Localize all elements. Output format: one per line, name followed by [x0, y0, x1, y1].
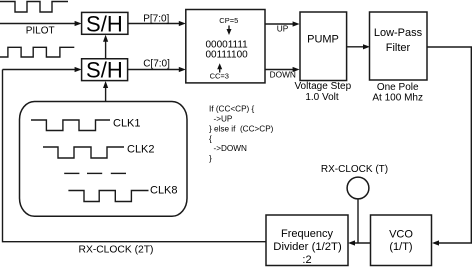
svg-text:} else if (CC>CP): } else if (CC>CP)	[209, 124, 274, 133]
svg-text:VCO: VCO	[389, 229, 413, 241]
svg-text:Low-Pass: Low-Pass	[374, 27, 423, 39]
svg-text:(1/T): (1/T)	[389, 241, 412, 253]
svg-text:DOWN: DOWN	[270, 70, 296, 80]
svg-text:1.0 Volt: 1.0 Volt	[305, 92, 339, 103]
svg-text:PILOT: PILOT	[26, 26, 55, 37]
svg-text:S/H: S/H	[86, 57, 123, 82]
svg-text:Divider (1/2T): Divider (1/2T)	[273, 241, 342, 253]
svg-text:}: }	[209, 154, 212, 163]
svg-text:->DOWN: ->DOWN	[214, 144, 248, 153]
svg-text:Voltage Step: Voltage Step	[294, 81, 351, 92]
svg-text:00111100: 00111100	[205, 50, 248, 61]
svg-text:C[7:0]: C[7:0]	[143, 59, 170, 70]
svg-text:S/H: S/H	[86, 11, 123, 36]
svg-text:{: {	[209, 134, 212, 143]
svg-text:CLK2: CLK2	[127, 144, 155, 156]
svg-text:P[7:0]: P[7:0]	[143, 13, 169, 24]
svg-text:RX-CLOCK (T): RX-CLOCK (T)	[321, 164, 388, 175]
svg-text:CP=5: CP=5	[219, 16, 238, 25]
svg-text:Filter: Filter	[386, 42, 411, 54]
svg-text:CC=3: CC=3	[210, 72, 229, 81]
svg-text:CLK8: CLK8	[150, 185, 178, 197]
svg-text:If (CC<CP) {: If (CC<CP) {	[209, 105, 255, 114]
svg-text::2: :2	[302, 254, 311, 266]
svg-text:CLK1: CLK1	[113, 118, 141, 130]
svg-text:RX-CLOCK (2T): RX-CLOCK (2T)	[79, 244, 154, 255]
svg-text:UP: UP	[277, 24, 289, 34]
svg-text:At 100 Mhz: At 100 Mhz	[372, 92, 423, 103]
svg-text:->UP: ->UP	[214, 115, 233, 124]
svg-text:PUMP: PUMP	[307, 34, 339, 46]
svg-text:Frequency: Frequency	[281, 228, 333, 240]
